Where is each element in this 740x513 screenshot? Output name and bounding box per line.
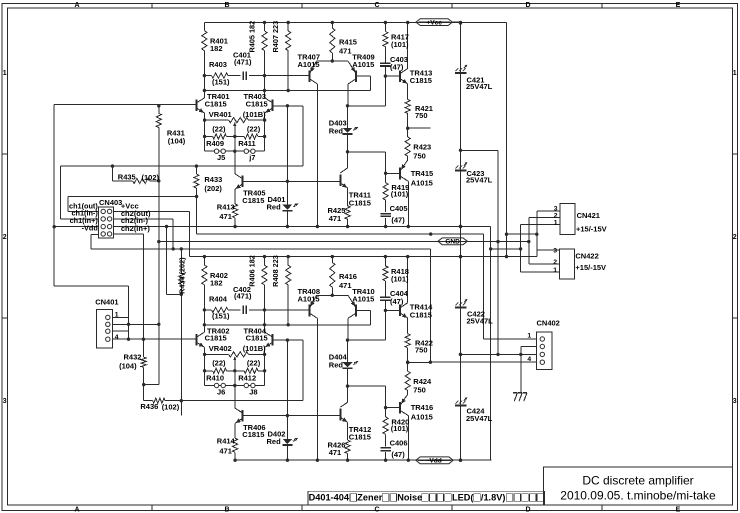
svg-text:CN422: CN422 [575, 252, 598, 261]
svg-text:C1815: C1815 [205, 334, 227, 343]
svg-text:471: 471 [339, 281, 352, 290]
svg-text:C1815: C1815 [242, 430, 264, 439]
svg-text:A: A [74, 507, 79, 513]
svg-text:R409: R409 [206, 139, 224, 148]
svg-text:1: 1 [554, 220, 558, 227]
svg-text:R436: R436 [140, 402, 158, 411]
svg-text:C405: C405 [390, 204, 408, 213]
svg-text:Red: Red [329, 126, 344, 135]
svg-text:(104): (104) [119, 361, 137, 370]
svg-text:A: A [74, 2, 79, 9]
svg-text:R434 (202): R434 (202) [178, 257, 187, 294]
svg-text:3: 3 [554, 205, 558, 212]
svg-text:4: 4 [115, 334, 119, 341]
svg-text:(22): (22) [247, 124, 261, 133]
svg-text:DC discrete amplifier: DC discrete amplifier [582, 474, 693, 488]
svg-text:A1015: A1015 [411, 178, 433, 187]
svg-text:C1815: C1815 [410, 310, 432, 319]
svg-text:2: 2 [554, 212, 558, 219]
svg-text:(471): (471) [234, 292, 252, 301]
svg-text:R404: R404 [209, 294, 228, 303]
svg-text:750: 750 [415, 111, 428, 120]
svg-text:(104): (104) [168, 137, 186, 146]
svg-text:R423: R423 [413, 143, 431, 152]
svg-text:J5: J5 [217, 153, 225, 162]
svg-text:R414: R414 [217, 437, 236, 446]
svg-text:j7: j7 [248, 153, 255, 162]
svg-text:R403: R403 [209, 60, 227, 69]
svg-text:C1815: C1815 [205, 99, 227, 108]
svg-text:E: E [676, 507, 681, 513]
svg-text:CN421: CN421 [577, 211, 600, 220]
svg-text:(47): (47) [390, 297, 404, 306]
svg-text:750: 750 [415, 345, 428, 354]
svg-text:(22): (22) [212, 359, 226, 368]
svg-text:3: 3 [553, 247, 557, 254]
svg-text:2: 2 [733, 234, 737, 241]
svg-text:471: 471 [339, 47, 352, 56]
svg-text:-Vdd: -Vdd [82, 223, 98, 232]
svg-text:182: 182 [210, 278, 223, 287]
svg-text:+Vcc: +Vcc [426, 19, 442, 26]
svg-text:CN403: CN403 [99, 198, 122, 207]
svg-text:-Vdd: -Vdd [427, 458, 442, 465]
svg-text:25V47L: 25V47L [466, 414, 493, 423]
svg-text:(151): (151) [212, 77, 230, 86]
svg-text:(101): (101) [391, 40, 409, 49]
svg-text:(101B): (101B) [243, 110, 266, 119]
svg-text:(151): (151) [212, 312, 230, 321]
svg-text:CN401: CN401 [95, 298, 118, 307]
svg-text:VR401: VR401 [209, 110, 232, 119]
svg-text:(101B): (101B) [243, 344, 266, 353]
svg-text:Zener: Zener [357, 493, 382, 503]
svg-text:J8: J8 [249, 387, 257, 396]
svg-text:471: 471 [219, 447, 232, 456]
svg-text:R413: R413 [217, 202, 235, 211]
svg-text:J6: J6 [217, 387, 225, 396]
svg-text:(101): (101) [391, 274, 409, 283]
svg-text:Red: Red [267, 203, 282, 212]
svg-text:C406: C406 [390, 439, 408, 448]
svg-text:25V47L: 25V47L [467, 316, 494, 325]
svg-text:R411: R411 [238, 139, 256, 148]
svg-text:R410: R410 [206, 373, 224, 382]
svg-text:+15/-15V: +15/-15V [576, 224, 607, 233]
svg-text:R424: R424 [413, 377, 432, 386]
svg-text:25V47L: 25V47L [466, 82, 493, 91]
svg-text:R435: R435 [118, 173, 136, 182]
svg-text:(101): (101) [391, 424, 409, 433]
svg-text:(47): (47) [391, 216, 405, 225]
svg-text:(102): (102) [142, 173, 160, 182]
svg-text:4: 4 [527, 356, 531, 363]
svg-text:(22): (22) [247, 359, 261, 368]
svg-text:A1015: A1015 [298, 60, 320, 69]
svg-text:1: 1 [527, 332, 531, 339]
svg-text:A1015: A1015 [298, 294, 320, 303]
svg-text:C1815: C1815 [246, 99, 268, 108]
svg-text:3: 3 [3, 398, 7, 405]
svg-text:(102): (102) [162, 403, 180, 412]
svg-text:A1015: A1015 [411, 413, 433, 422]
svg-text:1: 1 [3, 70, 7, 77]
svg-text:TR416: TR416 [411, 403, 434, 412]
svg-text:R433: R433 [204, 175, 222, 184]
svg-text:/1.8V): /1.8V) [481, 493, 506, 503]
svg-text:C1815: C1815 [246, 334, 268, 343]
svg-text:VR402: VR402 [209, 344, 232, 353]
svg-text:D: D [525, 2, 530, 9]
svg-text:R416: R416 [339, 272, 357, 281]
svg-text:C: C [374, 507, 379, 513]
svg-text:182: 182 [210, 44, 223, 53]
svg-text:750: 750 [413, 386, 426, 395]
svg-text:Red: Red [329, 361, 344, 370]
svg-text:+15/-15V: +15/-15V [575, 263, 606, 272]
svg-text:Red: Red [267, 437, 282, 446]
svg-text:1: 1 [115, 311, 119, 318]
svg-text:R408 223: R408 223 [271, 255, 280, 287]
svg-text:(47): (47) [391, 450, 405, 459]
svg-text:750: 750 [413, 151, 426, 160]
svg-text:(22): (22) [212, 124, 226, 133]
svg-text:471: 471 [329, 214, 342, 223]
svg-text:CN402: CN402 [537, 319, 560, 328]
svg-text:B: B [224, 2, 229, 9]
svg-text:2: 2 [3, 234, 7, 241]
svg-text:C1815: C1815 [242, 196, 264, 205]
svg-text:(202): (202) [204, 184, 222, 193]
svg-text:1: 1 [733, 70, 737, 77]
svg-text:25V47L: 25V47L [466, 176, 493, 185]
svg-text:R405 182: R405 182 [248, 21, 257, 53]
svg-text:R407 223: R407 223 [271, 21, 280, 53]
svg-text:LED(: LED( [452, 493, 474, 503]
svg-text:(101): (101) [391, 190, 409, 199]
svg-text:3: 3 [733, 398, 737, 405]
svg-text:GND: GND [445, 239, 460, 246]
svg-text:1: 1 [553, 267, 557, 274]
svg-text:(47): (47) [390, 63, 404, 72]
svg-text:C1815: C1815 [349, 198, 371, 207]
svg-text:471: 471 [329, 448, 342, 457]
svg-text:471: 471 [219, 212, 232, 221]
svg-text:B: B [224, 507, 229, 513]
svg-text:R406 182: R406 182 [248, 255, 257, 287]
svg-text:A1015: A1015 [352, 294, 374, 303]
svg-text:(471): (471) [234, 57, 252, 66]
svg-text:C: C [374, 2, 379, 9]
svg-text:R412: R412 [238, 373, 256, 382]
svg-text:Noise: Noise [397, 493, 422, 503]
svg-text:TR415: TR415 [411, 169, 434, 178]
svg-text:C1815: C1815 [349, 433, 371, 442]
svg-text:2010.09.05. t.minobe/mi-take: 2010.09.05. t.minobe/mi-take [560, 489, 716, 503]
svg-text:R415: R415 [339, 38, 357, 47]
svg-text:E: E [676, 2, 681, 9]
svg-text:ch2(in+): ch2(in+) [121, 224, 150, 233]
svg-text:C1815: C1815 [410, 76, 432, 85]
svg-text:R432: R432 [124, 353, 142, 362]
svg-text:2: 2 [553, 259, 557, 266]
svg-text:D: D [525, 507, 530, 513]
svg-text:A1015: A1015 [352, 60, 374, 69]
svg-text:D401-404: D401-404 [309, 493, 350, 503]
